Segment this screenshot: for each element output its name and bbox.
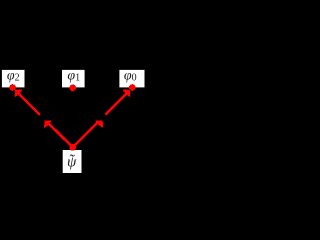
arrowhead psi to phi0 mid [96, 121, 102, 127]
node phi0 box [119, 70, 144, 88]
node phi0 dot [129, 84, 136, 91]
node phi2 box [2, 70, 25, 88]
node psi dot [69, 144, 76, 151]
label psi tilde [67, 152, 77, 171]
node phi2 dot [9, 84, 16, 91]
wire psi to phi2 upper segment [17, 92, 40, 115]
wire psi to phi0 lower segment [73, 123, 97, 147]
arrowhead psi to phi2 mid [45, 121, 51, 127]
svg-text:˜: ˜ [70, 152, 76, 169]
node psi box [63, 150, 82, 173]
wire psi to phi2 lower segment [48, 123, 72, 147]
arrowhead psi to phi0 end [124, 90, 130, 96]
node phi1 box [62, 70, 85, 88]
node phi1 dot [69, 84, 76, 91]
arrowhead psi to phi2 end [15, 90, 21, 96]
wire psi to phi0 upper segment [105, 92, 128, 115]
